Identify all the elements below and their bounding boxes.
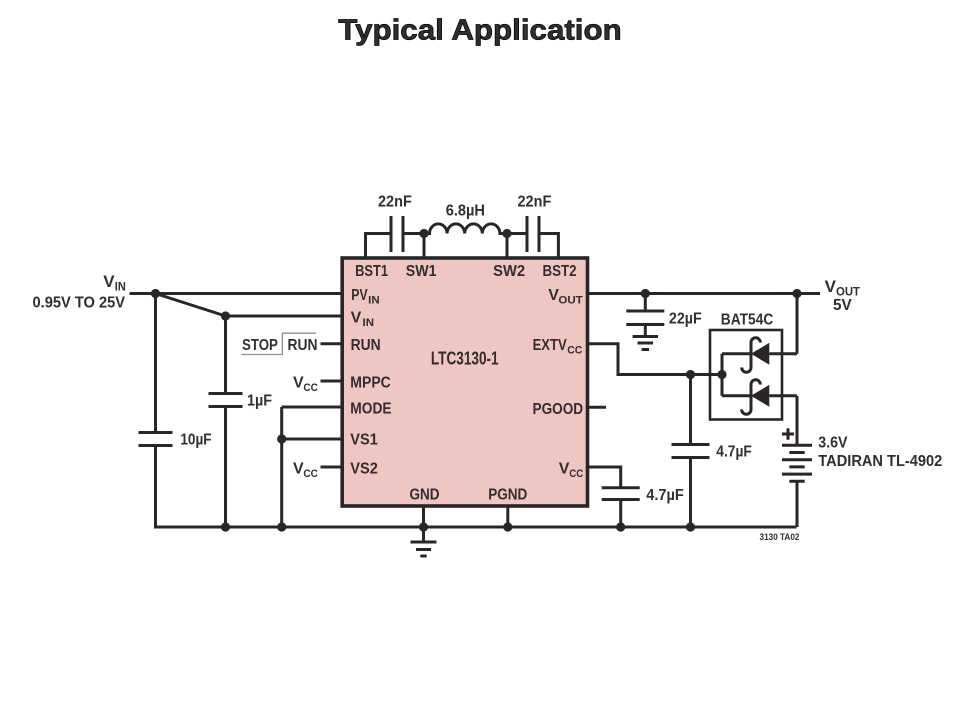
svg-text:TADIRAN TL-4902: TADIRAN TL-4902 xyxy=(818,453,942,470)
wire diagonal VIN node to VIN pin node xyxy=(156,294,226,317)
svg-text:PGOOD: PGOOD xyxy=(533,401,584,418)
node VOUT 22uF junction xyxy=(641,289,650,298)
capacitor C 4.7uF upper plates xyxy=(672,445,710,458)
svg-text:IN: IN xyxy=(363,317,375,329)
svg-text:PV: PV xyxy=(351,287,368,304)
wire 22uF stub bottom xyxy=(644,325,647,337)
svg-text:V: V xyxy=(559,460,570,477)
diode pair common cathode vertical xyxy=(721,354,724,396)
wire bottom ground rail xyxy=(154,526,797,529)
svg-text:MODE: MODE xyxy=(350,400,392,417)
schottky diode D2 bottom triangle xyxy=(751,385,769,407)
svg-text:3.6V: 3.6V xyxy=(818,435,847,452)
wire VIN label to PVIN pin xyxy=(130,292,343,295)
svg-text:STOP: STOP xyxy=(242,337,278,354)
wire 1uF vertical upper xyxy=(224,316,227,394)
wire 22uF stub top xyxy=(644,294,647,312)
wire bottom diode anode lead xyxy=(769,394,797,397)
wire ground symbol stub xyxy=(422,527,425,542)
BAT54C box xyxy=(710,330,782,420)
wire MODE/VS1 vertical xyxy=(280,407,283,527)
svg-text:22µF: 22µF xyxy=(669,311,702,328)
wire RUN pin xyxy=(321,342,343,345)
wire bottom diode to battery xyxy=(796,396,799,446)
STOP RUN switch lines xyxy=(242,333,317,354)
IC U1 LTC3130-1 body xyxy=(342,258,587,506)
node VS1 junction xyxy=(277,434,286,443)
capacitor C 1uF plates xyxy=(209,394,243,407)
wire EXTVCC 4.7uF to rail xyxy=(689,458,692,528)
svg-text:CC: CC xyxy=(567,345,582,357)
node EXTVCC cap junction xyxy=(686,370,695,379)
wire SW2 node to 22nF right xyxy=(507,232,527,235)
capacitor C 22uF plates xyxy=(626,311,664,325)
wire PGOOD stub xyxy=(585,406,606,409)
capacitor C 22nF left plates xyxy=(391,216,403,252)
node SW1 junction xyxy=(419,229,428,238)
battery plus sign xyxy=(782,428,794,440)
wire VCC to VS2 pin xyxy=(321,466,343,469)
svg-text:SW1: SW1 xyxy=(406,263,437,280)
wire VS1 pin xyxy=(282,438,342,441)
svg-text:4.7µF: 4.7µF xyxy=(716,444,752,461)
node SW2 junction xyxy=(502,229,511,238)
svg-text:10µF: 10µF xyxy=(180,432,211,449)
wire bottom diode cathode lead xyxy=(722,394,751,397)
svg-text:IN: IN xyxy=(368,295,380,307)
wire VCC right pin xyxy=(585,467,621,488)
svg-text:EXTV: EXTV xyxy=(533,337,567,354)
svg-text:BST1: BST1 xyxy=(355,263,388,280)
inductor L 6.8uH xyxy=(424,224,507,234)
svg-text:1µF: 1µF xyxy=(247,393,272,410)
svg-text:GND: GND xyxy=(410,487,440,504)
svg-text:V: V xyxy=(293,374,304,391)
wire VOUT to top diode vertical xyxy=(796,294,799,354)
wire BST1 stub and top loop xyxy=(366,234,392,260)
wire VOUT output xyxy=(585,292,820,295)
schottky diode D2 bottom cathode bar xyxy=(742,380,761,415)
wire 1uF vertical lower xyxy=(224,407,227,528)
schottky diode D1 top triangle xyxy=(751,343,769,365)
wire VCC cap to rail xyxy=(619,500,622,528)
node rail MODE junction xyxy=(277,522,286,531)
node rail VCC cap junction xyxy=(616,522,625,531)
node VIN2 junction xyxy=(221,311,230,320)
node rail 4.7uF junction xyxy=(686,522,695,531)
ground symbol below 22uF xyxy=(633,337,658,350)
wire top diode anode lead xyxy=(769,352,797,355)
node rail GND junction xyxy=(419,522,428,531)
svg-text:RUN: RUN xyxy=(351,337,381,354)
svg-text:V: V xyxy=(825,277,837,296)
battery BT1 plates xyxy=(782,445,812,481)
svg-text:V: V xyxy=(293,460,304,477)
svg-text:3130 TA02: 3130 TA02 xyxy=(760,532,800,543)
svg-text:MPPC: MPPC xyxy=(350,374,391,391)
svg-text:22nF: 22nF xyxy=(378,194,412,211)
svg-text:VS2: VS2 xyxy=(350,460,378,477)
svg-text:V: V xyxy=(351,309,362,326)
svg-text:5V: 5V xyxy=(833,297,852,314)
svg-text:SW2: SW2 xyxy=(493,263,525,280)
wire vertical input rail lower xyxy=(154,446,157,529)
wire VIN node2 to VIN pin xyxy=(226,315,343,318)
svg-text:IN: IN xyxy=(115,280,126,294)
svg-text:BST2: BST2 xyxy=(543,263,577,280)
capacitor C 22nF right plates xyxy=(527,216,539,252)
node rail 1uF junction xyxy=(221,522,230,531)
wire battery to rail xyxy=(796,481,799,527)
svg-text:BAT54C: BAT54C xyxy=(721,312,774,329)
svg-text:V: V xyxy=(103,272,115,291)
wire EXTVCC pin xyxy=(585,344,722,375)
node VOUT diode junction xyxy=(792,289,801,298)
capacitor C 10uF plates xyxy=(139,433,173,446)
svg-text:Typical Application: Typical Application xyxy=(338,15,621,47)
wire GND stub xyxy=(422,505,425,527)
svg-text:0.95V TO 25V: 0.95V TO 25V xyxy=(33,295,126,312)
svg-text:CC: CC xyxy=(303,468,318,480)
svg-text:CC: CC xyxy=(569,468,583,480)
svg-text:6.8µH: 6.8µH xyxy=(446,203,485,220)
node rail PGND junction xyxy=(503,522,512,531)
wire SW1 stub xyxy=(423,234,426,260)
node diode common junction xyxy=(717,370,726,379)
svg-text:VS1: VS1 xyxy=(350,431,378,448)
svg-text:4.7µF: 4.7µF xyxy=(646,487,684,504)
wire top diode cathode lead xyxy=(722,352,751,355)
svg-text:RUN: RUN xyxy=(288,337,318,354)
wire EXTVCC 4.7uF vertical upper xyxy=(689,375,692,445)
svg-text:22nF: 22nF xyxy=(518,194,552,211)
wire vertical input rail upper xyxy=(154,294,157,433)
ground symbol main xyxy=(411,542,437,556)
schottky diode D1 top cathode bar xyxy=(742,338,761,373)
svg-text:LTC3130-1: LTC3130-1 xyxy=(431,349,499,369)
wire MODE pin xyxy=(282,406,342,409)
wire PGND stub xyxy=(506,505,509,527)
capacitor C 4.7uF lower plates xyxy=(602,488,640,500)
svg-text:PGND: PGND xyxy=(488,487,527,504)
wire SW2 stub xyxy=(506,234,509,260)
wire 22nF left to SW1 node xyxy=(403,232,424,235)
svg-text:CC: CC xyxy=(303,382,318,394)
svg-text:OUT: OUT xyxy=(558,295,583,307)
wire 22nF right to BST2 stub xyxy=(539,234,558,260)
wire VCC to MPPC pin xyxy=(321,380,343,383)
node VIN junction xyxy=(151,289,160,298)
